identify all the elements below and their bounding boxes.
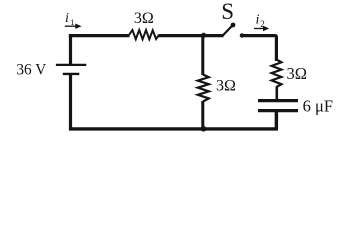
switch S right contact dot <box>240 33 244 37</box>
wire top-left horizontal <box>69 34 130 37</box>
value label 6 uF for C1 <box>303 97 333 116</box>
voltage source label 36 V <box>16 62 46 79</box>
wire bottom horizontal <box>69 112 278 129</box>
current arrow i2 <box>254 26 269 31</box>
node junction dot bottom-middle <box>201 126 207 132</box>
resistor R2 3Ω (middle vertical) <box>198 75 209 102</box>
wire top-middle horizontal <box>159 34 205 37</box>
svg-text:1: 1 <box>70 17 74 27</box>
wire resistor R3 to capacitor <box>275 87 278 100</box>
label S for switch <box>221 0 234 24</box>
svg-text:S: S <box>221 0 234 24</box>
capacitor C1 bottom plate <box>258 109 298 112</box>
value label 3Ω for R1 <box>134 10 154 27</box>
wire capacitor to bottom <box>275 112 278 130</box>
resistor R3 3Ω (right vertical) <box>272 60 282 88</box>
battery B1 short plate (negative) <box>63 73 80 75</box>
svg-text:6 μF: 6 μF <box>303 97 333 116</box>
wire top-right horizontal <box>242 36 276 61</box>
switch S blade <box>223 23 236 36</box>
capacitor C1 top plate <box>258 99 298 102</box>
svg-text:36 V: 36 V <box>16 62 46 79</box>
svg-text:3Ω: 3Ω <box>216 78 236 95</box>
wire left vertical lower <box>69 75 72 129</box>
wire from junction to switch <box>204 34 224 37</box>
svg-text:i: i <box>65 11 69 26</box>
resistor R1 3Ω (top) <box>129 30 159 39</box>
current label i1 <box>65 11 75 27</box>
battery B1 long plate (positive) <box>56 64 86 66</box>
wire left vertical upper <box>69 36 72 64</box>
wire middle vertical lower <box>201 101 204 130</box>
svg-text:3Ω: 3Ω <box>134 10 154 27</box>
value label 3Ω for R2 <box>216 78 236 95</box>
value label 3Ω for R3 <box>287 64 308 83</box>
current label i2 <box>256 13 265 29</box>
node junction dot top-middle <box>201 33 206 38</box>
svg-text:i: i <box>256 13 260 28</box>
current arrow i1 <box>65 24 82 29</box>
svg-text:3Ω: 3Ω <box>287 64 308 83</box>
wire middle vertical upper <box>201 36 204 76</box>
